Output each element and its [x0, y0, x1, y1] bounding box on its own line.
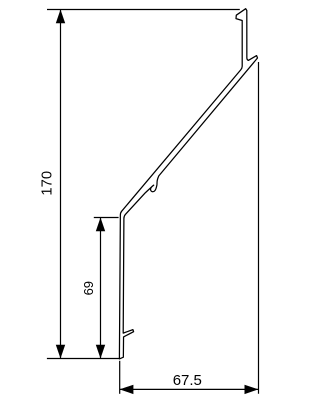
- svg-text:69: 69: [81, 281, 96, 295]
- svg-text:67.5: 67.5: [173, 372, 202, 389]
- svg-text:170: 170: [39, 171, 55, 196]
